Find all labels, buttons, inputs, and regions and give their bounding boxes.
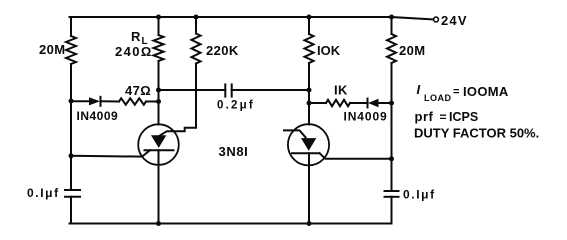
resistor 1K (326, 100, 350, 106)
label 220K (206, 43, 239, 58)
resistor 220K (192, 34, 201, 64)
resistor 47ohm (119, 98, 146, 104)
label I_LOAD = 100MA (417, 82, 509, 103)
label IN4009 (right) (344, 110, 388, 124)
wire left branch middle (70, 64, 72, 190)
label 0.1uf (left) (27, 186, 60, 200)
wire coupling cap right (232, 89, 309, 91)
wire 220K branch top (195, 17, 197, 34)
wire 1K row left segment (309, 102, 326, 104)
label 24V (441, 13, 468, 28)
svg-text:240Ω: 240Ω (115, 44, 153, 59)
label IN4009 (left) (77, 109, 119, 123)
svg-text:IN4009: IN4009 (344, 110, 388, 124)
node junction top rail / RL branch (156, 15, 161, 20)
wire RL to anode of Q1 (158, 61, 160, 125)
node junction Q1 cathode / bottom rail (156, 221, 161, 226)
wire right branch middle (391, 63, 393, 191)
wire 1K to diode (350, 102, 368, 104)
capacitor 0.1uf (right) (385, 191, 399, 197)
wire bottom common rail (70, 223, 392, 225)
label 1K (334, 83, 348, 98)
label prf = 1CPS (415, 109, 479, 124)
node junction 47ohm right end (156, 99, 161, 104)
wire Q2 cathode to bottom rail (308, 153, 310, 223)
svg-text:=: = (440, 110, 447, 124)
svg-text:20M: 20M (39, 42, 66, 57)
wire Q1 cathode-gate to left branch (71, 150, 150, 156)
label 240ohm (115, 44, 153, 59)
label 0.1uf (right) (403, 188, 436, 202)
wire 47ohm to anode branch (146, 101, 159, 103)
capacitor 0.2uf (225, 84, 231, 96)
wire diode to 47ohm (101, 100, 120, 102)
wire RL branch top (158, 17, 160, 35)
diode IN4009 (left) (89, 97, 101, 106)
node junction top rail / 20M right branch (389, 15, 394, 20)
transistor Q1 3N81 (left SCS) (138, 124, 179, 165)
label 47ohm (125, 83, 151, 98)
svg-text:IOK: IOK (317, 43, 341, 58)
label 10K (317, 43, 341, 58)
wire 10K branch top (308, 17, 310, 34)
svg-text:DUTY FACTOR 50%.: DUTY FACTOR 50%. (414, 126, 539, 141)
wire 20M right branch top (391, 17, 393, 34)
wire left branch top (70, 17, 72, 36)
svg-text:24V: 24V (441, 13, 468, 28)
wire Q1 cathode to bottom rail (158, 150, 160, 223)
wire right branch bottom (391, 197, 393, 224)
label 20M (left) (39, 42, 66, 57)
svg-text:220K: 220K (206, 43, 239, 58)
wire Q2 anode-gate stub (284, 130, 306, 137)
node junction Q2 cathode / bottom rail (307, 221, 312, 226)
svg-text:=: = (453, 86, 459, 98)
node junction diode row right end (389, 101, 394, 106)
terminal 24V open circle (434, 17, 439, 22)
resistor 20M (left) (66, 36, 76, 64)
node junction top rail / 10K branch (307, 15, 312, 20)
transistor Q2 3N81 (right SCS) (288, 124, 329, 165)
label 3N81 (219, 144, 249, 159)
label 20M (right) (399, 43, 426, 58)
node junction left diode row (69, 99, 74, 104)
label RL (131, 29, 148, 47)
diode IN4009 (right) (368, 99, 379, 108)
resistor RL 240ohm (154, 35, 164, 61)
svg-text:LOAD: LOAD (424, 93, 452, 103)
label 0.2uf (217, 100, 255, 112)
wire coupling cap left (159, 89, 226, 91)
node junction coupling cap left end (156, 88, 161, 93)
wire 220K to anode gate of Q1 (160, 64, 197, 136)
svg-text:IN4009: IN4009 (77, 109, 119, 123)
svg-text:0.2μf: 0.2μf (217, 100, 255, 112)
svg-text:0.Iμf: 0.Iμf (27, 186, 60, 200)
wire 10K to anode of Q2 (308, 63, 310, 125)
svg-text:ICPS: ICPS (449, 110, 478, 124)
svg-text:IOOMA: IOOMA (463, 84, 509, 99)
label DUTY FACTOR 50% (414, 126, 539, 141)
svg-text:47Ω: 47Ω (125, 83, 151, 98)
node junction top rail / 220K branch (194, 15, 199, 20)
resistor 10K (305, 34, 314, 63)
node junction left gate row (69, 153, 74, 158)
resistor 20M (right) (387, 34, 396, 63)
svg-text:IK: IK (334, 83, 348, 98)
capacitor 0.1uf (left) (65, 190, 80, 197)
wire diode row left segment (71, 100, 89, 102)
svg-text:3N8I: 3N8I (219, 144, 249, 159)
svg-text:0.Iμf: 0.Iμf (403, 188, 436, 202)
wire top supply rail +24V (70, 17, 434, 20)
svg-text:R: R (131, 29, 141, 44)
svg-text:prf: prf (415, 109, 434, 124)
wire left branch bottom (70, 197, 72, 224)
wire Q2 cathode-gate to right branch (320, 153, 392, 159)
node junction right gate row (389, 156, 394, 161)
svg-text:I: I (417, 82, 421, 97)
node junction coupling cap right end (307, 88, 312, 93)
svg-text:20M: 20M (399, 43, 426, 58)
node junction 1K row left end (307, 101, 312, 106)
wire diode to right branch (379, 102, 392, 104)
